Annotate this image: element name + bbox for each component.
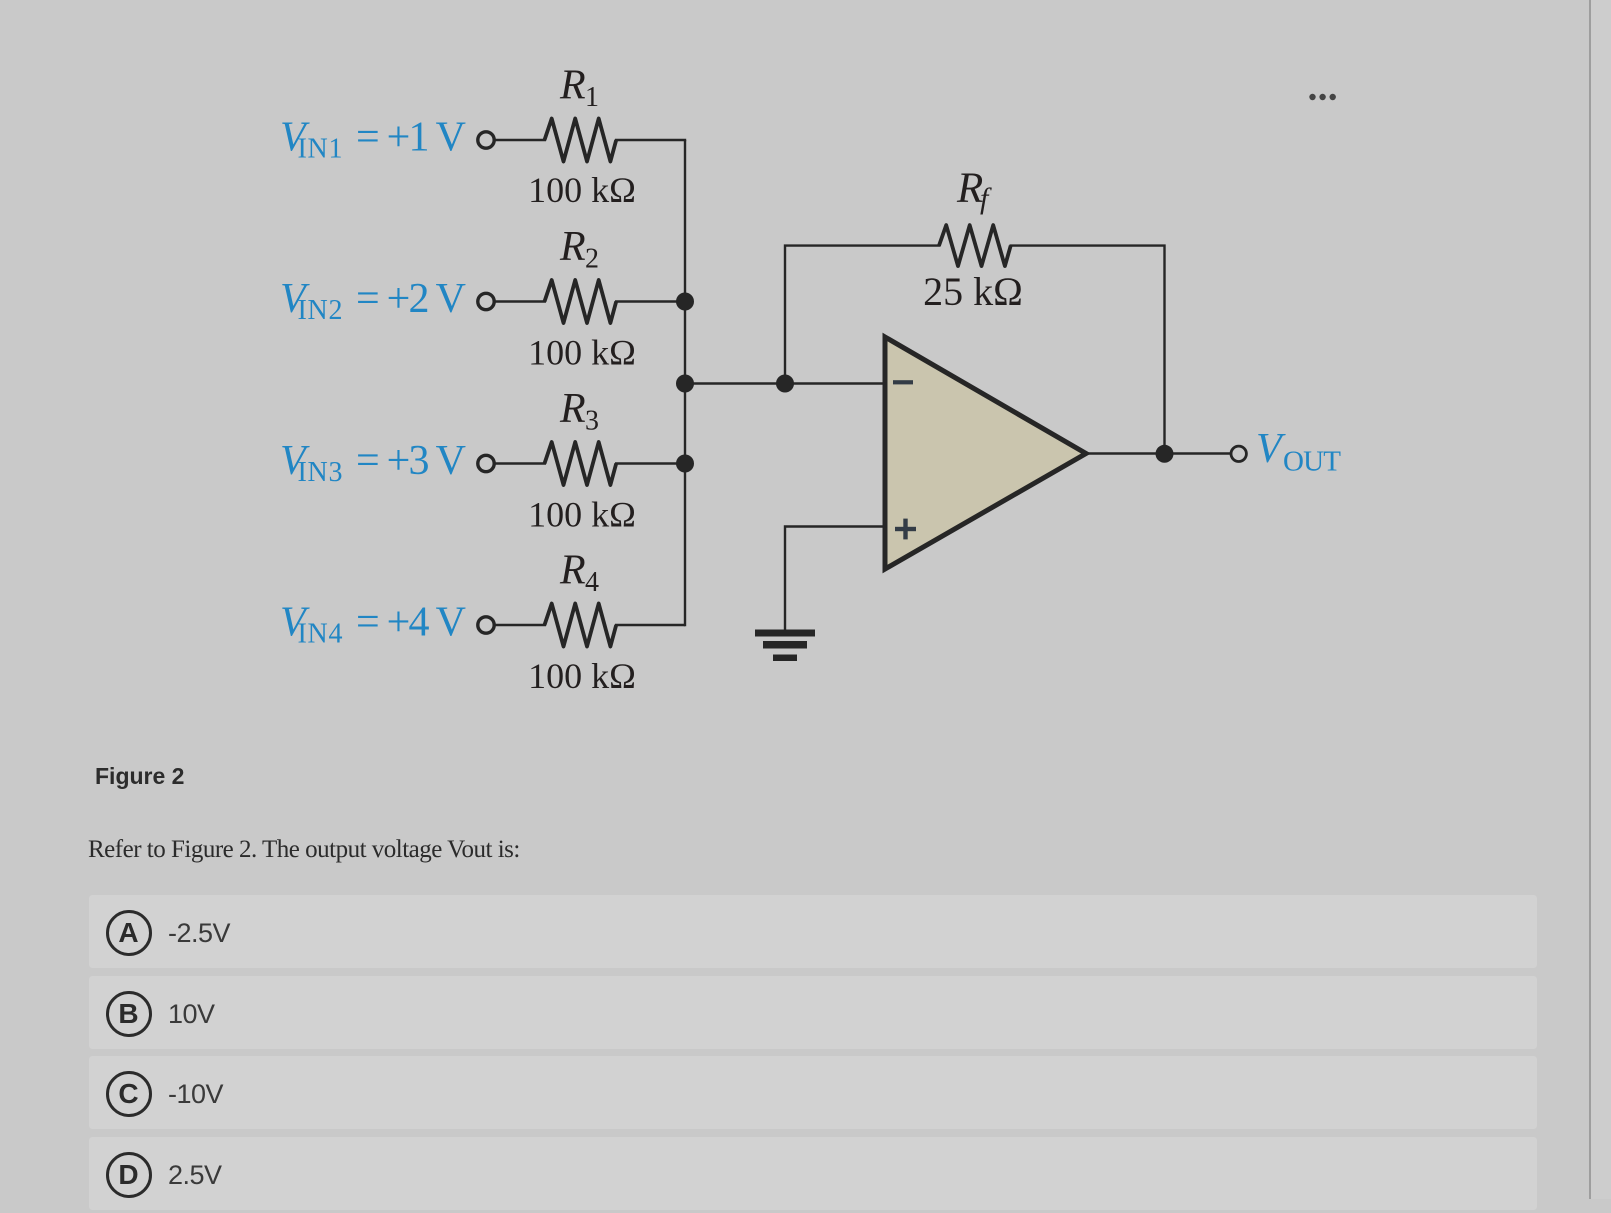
node label VIN1 = +1 V bbox=[280, 115, 466, 165]
wire R3 to bus bbox=[615, 462, 685, 464]
resistor R4 zigzag bbox=[545, 604, 617, 647]
wire op-amp noninverting input to ground leg bbox=[785, 527, 885, 630]
op-amp minus sign bbox=[893, 380, 913, 384]
option C bbox=[89, 1056, 1537, 1129]
svg-text:IN3: IN3 bbox=[298, 457, 343, 488]
svg-text:IN1: IN1 bbox=[298, 133, 343, 164]
svg-text:= +1 V: = +1 V bbox=[356, 115, 466, 161]
scrollbar bbox=[1589, 0, 1611, 1199]
ground bbox=[755, 630, 815, 662]
terminal VOUT bbox=[1231, 446, 1246, 461]
figure caption bbox=[95, 765, 184, 788]
svg-text:= +2 V: = +2 V bbox=[356, 276, 466, 322]
junction feedback tap bbox=[776, 375, 794, 393]
node label VOUT bbox=[1256, 426, 1341, 478]
resistor R1 zigzag bbox=[545, 119, 617, 162]
wire Rf to output column and down to output node bbox=[1010, 246, 1165, 454]
svg-text:R: R bbox=[559, 386, 586, 432]
more-options ellipsis icon bbox=[1300, 88, 1346, 106]
op-amp U1 triangle bbox=[885, 337, 1086, 569]
svg-text:R: R bbox=[559, 548, 586, 594]
option A bbox=[89, 895, 1537, 968]
op-amp plus sign bbox=[895, 519, 916, 540]
svg-text:25 kΩ: 25 kΩ bbox=[923, 269, 1023, 314]
terminal VIN2 bbox=[478, 293, 494, 309]
junction summing node bbox=[676, 375, 694, 393]
option D bbox=[89, 1137, 1537, 1210]
label R1 bbox=[559, 63, 599, 114]
resistor R3 zigzag bbox=[545, 442, 617, 485]
question text bbox=[88, 837, 520, 862]
label R4 bbox=[559, 548, 599, 599]
svg-text:3: 3 bbox=[585, 406, 599, 437]
svg-text:100 kΩ: 100 kΩ bbox=[528, 495, 636, 535]
resistor R2 zigzag bbox=[545, 280, 617, 323]
svg-text:1: 1 bbox=[585, 82, 599, 113]
wire R1 to bus corner bbox=[615, 139, 686, 141]
wire VIN3 to R3 bbox=[495, 462, 546, 464]
label Rf bbox=[956, 165, 992, 215]
svg-text:2: 2 bbox=[585, 244, 599, 275]
wire summing node to op-amp inverting input bbox=[685, 382, 885, 384]
terminal VIN1 bbox=[478, 132, 494, 148]
svg-text:V: V bbox=[1256, 426, 1286, 472]
terminal VIN3 bbox=[478, 455, 494, 471]
svg-text:100 kΩ: 100 kΩ bbox=[528, 333, 636, 373]
node label VIN4 = +4 V bbox=[280, 600, 466, 650]
option B bbox=[89, 976, 1537, 1049]
svg-text:100 kΩ: 100 kΩ bbox=[528, 170, 636, 210]
node label VIN3 = +3 V bbox=[280, 438, 466, 488]
wire VIN1 to R1 bbox=[495, 139, 546, 141]
svg-text:= +3 V: = +3 V bbox=[356, 438, 466, 484]
svg-text:IN4: IN4 bbox=[298, 618, 343, 649]
wire R2 to bus bbox=[615, 300, 685, 302]
label R2 bbox=[559, 224, 599, 275]
svg-text:f: f bbox=[980, 182, 992, 215]
wire summing bus vertical bbox=[684, 140, 686, 626]
svg-text:100 kΩ: 100 kΩ bbox=[528, 656, 636, 696]
svg-text:R: R bbox=[559, 224, 586, 270]
wire feedback up-leg and top run to Rf bbox=[785, 246, 941, 384]
wire VIN4 to R4 bbox=[495, 624, 546, 626]
svg-text:= +4 V: = +4 V bbox=[356, 600, 466, 646]
label R3 bbox=[559, 386, 599, 437]
wire VIN2 to R2 bbox=[495, 300, 546, 302]
resistor Rf zigzag bbox=[939, 225, 1011, 266]
junction node R2-bus bbox=[676, 293, 694, 311]
terminal VIN4 bbox=[478, 617, 494, 633]
circuit schematic figure bbox=[0, 0, 1450, 730]
wire op-amp output to VOUT terminal bbox=[1084, 452, 1231, 454]
svg-text:R: R bbox=[559, 63, 586, 109]
svg-text:4: 4 bbox=[585, 567, 599, 598]
junction output node bbox=[1156, 445, 1174, 463]
node label VIN2 = +2 V bbox=[280, 276, 466, 326]
wire R4 to bus corner bbox=[615, 624, 685, 626]
svg-text:IN2: IN2 bbox=[298, 295, 343, 326]
svg-text:OUT: OUT bbox=[1283, 446, 1341, 478]
junction node R3-bus bbox=[676, 455, 694, 473]
